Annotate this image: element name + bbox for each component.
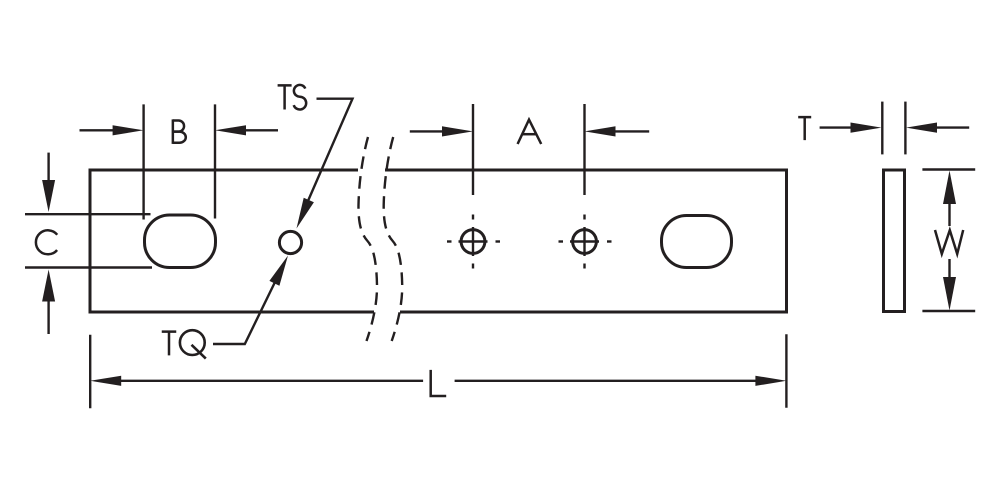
bar left edge: [89, 169, 92, 314]
dimension T arrow right (pointing left): [932, 126, 969, 128]
round hole 2 crosshair: [559, 215, 612, 269]
dimension C top reference line: [25, 213, 151, 215]
TS leader line: [306, 99, 353, 206]
bar bottom edge right segment: [400, 311, 787, 314]
dimension C label: [36, 230, 57, 254]
TS leader arrowhead: [297, 198, 314, 229]
dimension A arrow right (pointing left): [610, 130, 649, 132]
dimension L line left with arrow (pointing left): [116, 380, 423, 382]
bar top edge left segment: [90, 169, 358, 172]
slotted hole right: [662, 216, 732, 268]
break line left: [358, 137, 377, 341]
TQ leader arrowhead: [269, 256, 288, 286]
dimension B extension line right: [214, 104, 216, 218]
dimension A extension line left: [472, 104, 474, 195]
dimension A arrow left (pointing right): [410, 130, 447, 132]
dimension W label: [935, 230, 963, 254]
dimension L extension line left: [89, 335, 91, 409]
bar right edge: [785, 169, 788, 314]
dimension L extension line right: [785, 334, 787, 408]
label TS: [278, 85, 307, 110]
dimension T extension line right: [904, 102, 906, 155]
bar top edge right segment: [385, 169, 787, 172]
round hole 2 circle: [573, 230, 597, 254]
dimension L label: [431, 370, 447, 396]
bar bottom edge left segment: [90, 311, 374, 314]
TQ leader line: [213, 280, 276, 344]
dimension B extension line left: [142, 104, 144, 219]
dimension W arrow up: [943, 171, 956, 205]
dimension C arrow down: [47, 153, 49, 186]
dimension T label: [798, 117, 811, 140]
dimension W arrow down: [948, 259, 950, 282]
TS hole circle: [279, 231, 301, 253]
dimension T leader arrow (pointing right): [820, 126, 856, 128]
dimension W top tick: [922, 168, 975, 170]
slotted hole left: [145, 215, 216, 268]
dimension B arrow left (pointing right): [80, 129, 119, 131]
dimension T extension line left: [881, 102, 883, 155]
dimension W bottom tick: [922, 310, 975, 312]
dimension L line right with arrow (pointing right): [455, 380, 761, 382]
side view plate: [884, 170, 905, 312]
dimension C arrow up: [47, 296, 49, 334]
dimension A extension line right: [583, 104, 585, 195]
dimension B label: [173, 119, 186, 143]
round hole 1 crosshair: [447, 215, 500, 269]
break line right: [384, 137, 403, 341]
dimension B arrow right (pointing left): [241, 129, 278, 131]
dimension C bottom reference line: [25, 266, 152, 268]
label TQ: [162, 330, 206, 358]
round hole 1 circle: [461, 230, 485, 254]
dimension A label: [518, 120, 542, 144]
